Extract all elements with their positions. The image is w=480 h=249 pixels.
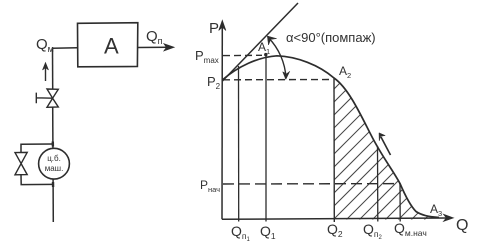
apparatus A (box) [78, 23, 138, 67]
svg-text:A3: A3 [430, 202, 442, 218]
junction (bypass top) [52, 142, 55, 147]
point A1 [264, 53, 267, 56]
vertical line Q1 [265, 55, 267, 222]
valve V1 (on main line, with stem) [47, 89, 58, 107]
svg-text:Qп: Qп [146, 28, 163, 46]
vertical line Q2 [333, 78, 335, 222]
vertical line Qп2 [377, 146, 379, 222]
Q axis [222, 218, 447, 219]
svg-text:A2: A2 [339, 64, 351, 80]
wire: inlet pipe into apparatus A [53, 47, 78, 50]
wire: bypass loop [21, 144, 53, 185]
characteristic curve [222, 56, 439, 218]
svg-text:маш.: маш. [45, 164, 64, 173]
svg-text:P: P [209, 20, 219, 37]
svg-text:Q1: Q1 [260, 223, 276, 241]
svg-text:Pнач: Pнач [200, 178, 220, 194]
dashed line Pнач [223, 183, 400, 185]
svg-text:Q: Q [456, 217, 468, 234]
dashed line Pmax [223, 54, 262, 56]
flow direction arrow (up) [45, 66, 47, 81]
wire: main vertical pipe (upper part) [52, 48, 54, 89]
svg-text:ц.б.: ц.б. [47, 154, 61, 163]
tangent line at surge point [223, 3, 299, 81]
dashed line P2 [223, 79, 332, 81]
pump: centrifugal machine (ц.б. маш.) [39, 148, 70, 179]
vertical line Qм.нач [399, 184, 401, 222]
P axis [221, 25, 223, 219]
arrow along curve (direction of movement) [381, 137, 391, 155]
svg-text:Qп1: Qп1 [231, 223, 251, 243]
svg-text:Qм.нач: Qм.нач [394, 220, 427, 238]
svg-text:Qп2: Qп2 [363, 221, 383, 241]
valve V2 (on bypass) [15, 152, 27, 174]
svg-text:Qм: Qм [36, 36, 54, 54]
wire: main vertical pipe (lower part, through pump) [52, 107, 55, 222]
svg-text:A: A [104, 34, 119, 59]
svg-text:Q2: Q2 [327, 221, 343, 239]
svg-text:α<90°(помпаж): α<90°(помпаж) [286, 30, 376, 45]
svg-text:Pmax: Pmax [195, 48, 219, 65]
wire: outlet arrow Qп [137, 46, 169, 48]
junction (bypass bottom) [52, 182, 54, 187]
hatched surge area [175, 67, 480, 222]
svg-text:P2: P2 [207, 74, 221, 91]
angle arc (double arrow between tangent and P2 line) [268, 38, 286, 79]
vertical line Qп1 [238, 66, 240, 222]
